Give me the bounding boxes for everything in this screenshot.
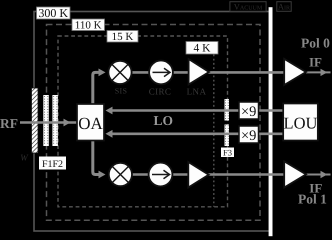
wire upper mixer to circulator bbox=[130, 71, 150, 74]
circulator CIRC upper (circle with arrow) bbox=[149, 61, 173, 85]
svg-text:300 K: 300 K bbox=[38, 6, 68, 20]
window W (hatched bar on 300 K wall) bbox=[32, 88, 39, 153]
svg-text:IF: IF bbox=[309, 55, 322, 70]
wire lower x9 to LOU (crosses window) bbox=[259, 133, 285, 136]
wire upper circulator to LNA bbox=[172, 71, 189, 74]
amplifier IF upper right (triangle) bbox=[284, 59, 306, 85]
svg-text:F3: F3 bbox=[223, 147, 232, 157]
svg-text:LNA: LNA bbox=[187, 87, 207, 97]
svg-text:Vacuum: Vacuum bbox=[234, 1, 263, 11]
wire upper x9 to LOU (crosses window) bbox=[259, 109, 285, 112]
filter F3 lower (bar on LO line) bbox=[225, 125, 230, 147]
label box Vacuum bbox=[230, 1, 266, 11]
svg-text:OA: OA bbox=[78, 114, 103, 133]
shield 15 K (dashed box) bbox=[58, 36, 228, 207]
svg-text:×9: ×9 bbox=[241, 104, 256, 120]
label box F3 bbox=[221, 147, 234, 157]
svg-text:110 K: 110 K bbox=[75, 19, 102, 31]
wire lower circulator to LNA bbox=[172, 173, 189, 176]
mixer SIS lower (circle with X) bbox=[109, 163, 132, 186]
wire upper LO line with arrow into OA bbox=[106, 107, 240, 115]
wire OA to upper mixer (elbow up with arrow) bbox=[93, 69, 106, 106]
filter F1 (bar on 110 K shield) bbox=[43, 95, 49, 146]
vacuum window bar (white, vacuum/air boundary) bbox=[269, 7, 273, 236]
label box 4 K bbox=[186, 42, 218, 55]
amplifier LNA lower (triangle) bbox=[188, 162, 208, 188]
svg-text:Pol 1: Pol 1 bbox=[298, 192, 327, 207]
wire lower mixer to circulator bbox=[131, 173, 151, 176]
mixer SIS upper (circle with X) bbox=[108, 61, 131, 84]
svg-text:LOU: LOU bbox=[284, 114, 318, 133]
4 K stage divider (dotted line) bbox=[213, 55, 215, 207]
svg-text:F1F2: F1F2 bbox=[42, 159, 63, 170]
block x9 multiplier lower bbox=[239, 126, 259, 144]
svg-text:4 K: 4 K bbox=[194, 43, 212, 55]
wire upper LNA to IF amp (crosses shields and window) bbox=[208, 71, 285, 74]
svg-text:LO: LO bbox=[154, 113, 174, 128]
enclosure 300 K cryostat outer wall (solid box) bbox=[34, 12, 270, 232]
wire RF input with arrow into OA bbox=[20, 119, 77, 127]
wire OA to lower mixer (elbow down with arrow) bbox=[93, 140, 106, 178]
wire upper IF output with arrow bbox=[306, 69, 331, 76]
label box 300 K bbox=[37, 6, 71, 20]
filter F3 upper (bar on LO line) bbox=[225, 99, 230, 121]
filter F2 (bar on 15 K shield) bbox=[52, 95, 58, 146]
svg-text:SIS: SIS bbox=[115, 87, 127, 96]
wire lower LO line with arrow into OA bbox=[106, 130, 240, 138]
block x9 multiplier upper bbox=[239, 102, 259, 120]
label box 110 K bbox=[72, 19, 105, 31]
label box 15 K bbox=[107, 31, 138, 43]
svg-text:15 K: 15 K bbox=[112, 31, 134, 43]
label box Air bbox=[277, 1, 291, 11]
amplifier LNA upper (triangle) bbox=[189, 59, 209, 85]
block LOU (local oscillator unit) bbox=[283, 104, 318, 141]
circulator lower (circle with arrow) bbox=[149, 163, 173, 187]
label box F1F2 bbox=[39, 157, 66, 170]
svg-text:RF: RF bbox=[0, 116, 18, 131]
svg-text:Pol 0: Pol 0 bbox=[301, 36, 330, 51]
wire lower LNA to IF amp (crosses shields and window) bbox=[208, 173, 285, 176]
block OA (orthomode transducer) bbox=[77, 104, 104, 141]
wire lower IF output with arrow bbox=[306, 171, 331, 178]
amplifier IF lower right (triangle) bbox=[284, 161, 306, 187]
svg-text:Air: Air bbox=[278, 1, 290, 11]
shield 110 K (dashed box) bbox=[47, 25, 261, 221]
svg-text:×9: ×9 bbox=[241, 128, 256, 144]
svg-text:CIRC: CIRC bbox=[149, 87, 172, 97]
